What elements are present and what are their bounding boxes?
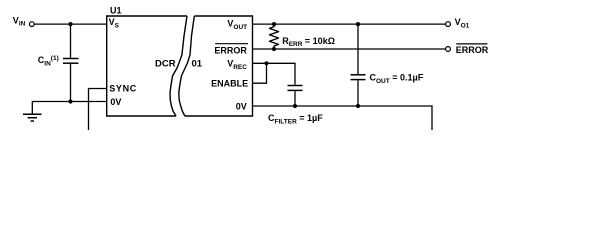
wire CIN top lead <box>70 24 72 58</box>
wire COUT top lead <box>357 24 359 74</box>
capacitor CIN <box>63 59 79 64</box>
node junction ERROR/RERR <box>272 47 276 51</box>
node junction VOUT/COUT <box>356 22 360 26</box>
wire input 0V rail <box>32 102 106 114</box>
wire CFILTER bottom lead <box>294 91 296 106</box>
wire output 0V rail <box>253 106 433 130</box>
wire break left curve <box>170 16 187 116</box>
node junction VOUT/RERR <box>272 22 276 26</box>
terminal ERROR circle <box>446 47 451 52</box>
op-amp U1 box left section <box>107 16 253 116</box>
node VIN terminal circle <box>29 22 34 27</box>
svg-text:0V: 0V <box>110 97 121 107</box>
wire CIN bottom lead <box>70 64 72 102</box>
svg-text:SYNC: SYNC <box>109 84 137 94</box>
op-amp U1 box right section <box>185 16 253 116</box>
wire VOUT net <box>253 23 446 25</box>
wire COUT bottom lead <box>357 80 359 106</box>
wire VIN to U1 VS pin <box>34 23 106 25</box>
svg-text:DCR: DCR <box>155 58 176 69</box>
svg-text:ERROR: ERROR <box>214 45 247 55</box>
capacitor COUT <box>351 75 366 80</box>
ground <box>23 114 42 121</box>
node junction CFILTER/0V rail <box>293 104 297 108</box>
svg-text:ERROR: ERROR <box>456 45 489 55</box>
svg-text:U1: U1 <box>110 6 122 16</box>
wire VREC net <box>253 63 296 85</box>
wire ENABLE tie to VREC <box>253 63 267 83</box>
node junction VREC/ENABLE <box>264 61 268 65</box>
capacitor CFILTER <box>288 86 303 91</box>
node junction VIN/CIN <box>68 22 72 26</box>
node junction COUT/0V rail <box>356 104 360 108</box>
wire ERROR net <box>253 48 446 50</box>
svg-text:ENABLE: ENABLE <box>211 78 248 88</box>
resistor RERR <box>269 24 278 49</box>
node junction CIN/0V rail <box>68 99 72 103</box>
wire SYNC <box>89 89 107 131</box>
wire break right curve <box>179 16 195 116</box>
svg-text:0V: 0V <box>236 102 247 112</box>
svg-text:01: 01 <box>192 58 203 69</box>
terminal VO1 circle <box>446 22 451 27</box>
